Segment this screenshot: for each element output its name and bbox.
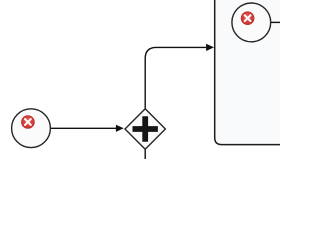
error badge on start event — [22, 116, 35, 129]
sequence flow: event in container to right (clipped) — [271, 21, 281, 23]
sequence flow: gateway up then right into container — [145, 47, 206, 108]
parallel gateway plus marker — [133, 116, 158, 141]
start event circle — [12, 109, 51, 148]
arrowhead at container edge — [206, 44, 214, 51]
parallel gateway diamond — [125, 109, 165, 149]
error badge on container event — [241, 12, 254, 25]
event circle inside container — [232, 3, 271, 42]
arrowhead at gateway — [116, 125, 124, 132]
subprocess container (rounded rectangle, clipped at top and right) — [215, 0, 292, 145]
sequence flow: gateway downward (clipped at bottom) — [144, 149, 146, 160]
sequence flow: start event to parallel gateway — [50, 127, 116, 129]
